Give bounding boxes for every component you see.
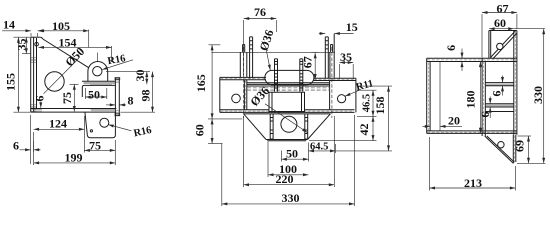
svg-text:6: 6 (444, 45, 458, 51)
svg-text:75: 75 (60, 92, 74, 104)
beam bottom hatch (427, 131, 516, 133)
left post (240, 45, 247, 78)
beam left end cap (427, 58, 430, 133)
central box (269, 92, 305, 111)
svg-text:330: 330 (282, 191, 300, 205)
band 1 edge lines (485, 83, 514, 86)
svg-text:14: 14 (3, 18, 15, 32)
upright right edge hatch (514, 31, 516, 134)
upright plate left edge (482, 58, 485, 137)
hanging stud right (305, 114, 309, 139)
bottom lug small hole (90, 130, 92, 132)
right side plate outline (330, 78, 356, 112)
bottom gusset diagonals (485, 136, 515, 163)
beam bottom hatch (220, 110, 354, 112)
bottom gusset edge hatch (514, 136, 516, 162)
svg-text:124: 124 (49, 117, 67, 131)
right top flange hatch (314, 78, 355, 80)
small corner hole (35, 42, 39, 46)
gusset trapezoid left diagonal (244, 114, 267, 140)
svg-text:67: 67 (497, 2, 509, 16)
beam inner vertical line (439, 62, 441, 131)
svg-text:69: 69 (513, 140, 527, 152)
beam top face lines (247, 83, 330, 86)
svg-text:67: 67 (301, 56, 315, 68)
band 2 edge lines (485, 104, 514, 112)
svg-text:15: 15 (346, 20, 358, 34)
D36 lower leader (265, 104, 308, 133)
beam upper hatch band (247, 88, 330, 91)
left flange strip inner line (33, 37, 35, 112)
upright hatch band 1 (486, 83, 514, 86)
left side plate hole (232, 94, 241, 103)
flange hatch top (31, 58, 36, 63)
top gusset hole (497, 43, 503, 49)
gusset trapezoid bottom edge (266, 140, 308, 141)
svg-text:46.5: 46.5 (362, 94, 373, 112)
channel top flange band (82, 81, 115, 97)
gusset trapezoid top edge (244, 113, 331, 115)
gusset trapezoid right diagonal (308, 114, 331, 140)
svg-text:60: 60 (193, 124, 207, 136)
mid stud right (300, 59, 304, 92)
bottom lug hole (100, 118, 109, 127)
top gusset left edge (489, 31, 491, 59)
beam top edge lines (427, 58, 517, 61)
big hole circle D50 (45, 72, 64, 91)
svg-text:50: 50 (88, 87, 100, 101)
top gusset inner diagonal (493, 33, 517, 59)
beam bottom edge lines (427, 131, 517, 134)
R11 leader (345, 90, 361, 97)
R16 top leader (102, 60, 133, 70)
gusset center hole (281, 116, 297, 132)
left post centerline (243, 47, 245, 118)
svg-text:330: 330 (531, 86, 545, 104)
svg-text:42: 42 (357, 124, 371, 136)
right post centerline (331, 47, 333, 118)
svg-text:98: 98 (139, 90, 153, 102)
D36 upper leader (266, 50, 270, 71)
svg-text:155: 155 (4, 73, 18, 91)
top lug outline (88, 62, 108, 82)
top lug apex tick (97, 53, 99, 62)
main plate left edge (36, 38, 38, 109)
ext line to 330 dim (514, 28, 545, 30)
top gusset top edge (489, 30, 517, 32)
D50 leader line (44, 61, 77, 94)
svg-text:220: 220 (276, 172, 294, 186)
obround slot (265, 70, 314, 84)
top gusset diagonal (490, 31, 515, 58)
upright left edge hatch (483, 62, 485, 136)
bottom lug outline (85, 112, 116, 138)
plate top edge (31, 36, 41, 38)
rear plate top edge (220, 51, 335, 53)
tall stud right (325, 37, 329, 79)
svg-text:35: 35 (340, 50, 352, 64)
plate diagonal edge (43, 39, 89, 68)
right side plate hole (338, 95, 346, 103)
channel bar hatch (116, 81, 120, 112)
top lug hole (93, 67, 102, 76)
svg-text:165: 165 (194, 74, 208, 92)
R16 bottom leader (108, 125, 131, 131)
svg-text:158: 158 (373, 97, 387, 115)
channel right bar caps (115, 78, 121, 116)
bottom flange band lines (31, 109, 117, 113)
svg-text:199: 199 (65, 151, 83, 165)
bottom gusset hole (498, 142, 504, 148)
beam left cap hatch (427, 63, 429, 131)
hanging stud left (270, 114, 274, 139)
left flange strip outer line (30, 37, 32, 112)
channel top flange hatch (84, 82, 116, 84)
svg-text:20: 20 (448, 113, 460, 127)
tall stud left (249, 37, 253, 79)
right top flange lines (314, 78, 356, 80)
upright hatch band 2 (486, 104, 514, 106)
beam top hatch (427, 59, 516, 61)
plate top corner arc (40, 37, 43, 39)
svg-text:6: 6 (33, 96, 47, 102)
channel right bar (115, 78, 119, 116)
bottom gusset right edge (513, 135, 516, 164)
svg-text:60: 60 (494, 16, 506, 30)
left side plate edge hatch (245, 81, 247, 110)
upright plate right edge (514, 31, 517, 135)
left top flange hatch (220, 78, 265, 80)
svg-text:8: 8 (128, 94, 134, 108)
beam bottom lines (220, 110, 355, 113)
svg-text:50: 50 (286, 146, 298, 160)
svg-text:6: 6 (490, 91, 504, 97)
right post (330, 34, 334, 78)
svg-text:76: 76 (254, 5, 266, 19)
svg-text:180: 180 (464, 91, 478, 109)
bottom flange hatch (34, 110, 116, 112)
central box inner lines (272, 92, 302, 111)
left side plate outline (220, 77, 247, 112)
svg-text:6: 6 (13, 139, 19, 153)
flange hatch bottom (31, 105, 36, 112)
mid stud left (274, 59, 278, 92)
left top flange lines (220, 77, 266, 79)
